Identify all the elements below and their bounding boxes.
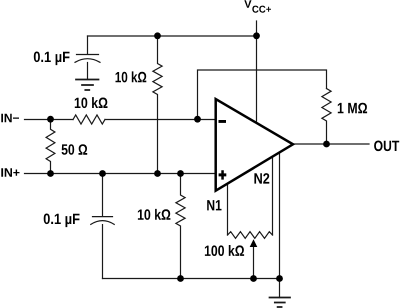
potentiometer R6 100k [228, 232, 273, 239]
capacitor C2 bottom lead [102, 225, 104, 279]
capacitor C2 top lead [102, 174, 104, 217]
label pin N1 [207, 200, 221, 210]
junction IN+ / R3 [47, 170, 54, 177]
label R4 value 1 MOhm [338, 103, 367, 114]
label pin N2 [254, 173, 269, 184]
junction IN+ / C2 [99, 170, 106, 177]
junction bottom / R5 [177, 275, 184, 282]
resistor R4 1M feedback [322, 89, 331, 145]
junction IN+ / R5 [177, 170, 184, 177]
ground G1 [76, 80, 99, 91]
junction bottom / wiper [250, 275, 257, 282]
wire Vcc lead into op-amp [256, 21, 258, 121]
wire bottom rail [103, 278, 280, 280]
op-amp minus sign [219, 120, 227, 123]
wire N2 lead [272, 158, 274, 236]
capacitor C1 0.1uF plates [75, 55, 100, 63]
label OUT [374, 141, 399, 152]
resistor R3 50 ohm [46, 120, 55, 174]
label IN+ [1, 168, 19, 177]
label R2 value 10 kOhm [75, 97, 108, 108]
junction IN- / R3 [47, 116, 54, 123]
op-amp plus sign [219, 170, 227, 179]
capacitor C1 top lead [87, 36, 89, 54]
junction top wire / R1 [154, 32, 161, 39]
resistor R2 10k horizontal [73, 115, 105, 124]
label Vcc+ CC+ subscript [252, 6, 271, 13]
wire wiper stem [253, 246, 255, 279]
ground G2 [270, 298, 291, 308]
label R6 value 100 kOhm [205, 245, 244, 256]
wire IN- line [25, 119, 74, 121]
wire N1 lead [227, 183, 229, 236]
label Vcc+ V [244, 0, 251, 8]
label R1 value 10 kOhm [116, 71, 147, 82]
label C1 value 0.1 uF [34, 52, 70, 66]
label C2 value 0.1 uF [44, 214, 80, 228]
wire feedback loop [198, 70, 327, 120]
capacitor C2 0.1uF plates [91, 217, 114, 225]
wiper arrow [250, 239, 258, 247]
resistor R5 10k vertical bottom [176, 174, 185, 279]
wire top rail [88, 35, 257, 37]
wire output [293, 143, 369, 145]
junction top wire / Vcc [253, 32, 260, 39]
op-amp U1 [216, 99, 293, 191]
wire IN- to op-amp [105, 119, 216, 121]
resistor R1 10k vertical top [153, 36, 162, 174]
wire IN+ line [25, 173, 216, 175]
junction bottom / ground lead [276, 275, 283, 282]
capacitor C1 bottom lead [87, 63, 89, 80]
label IN- [1, 114, 19, 123]
wire Vcc- / ground lead [279, 153, 281, 298]
junction output / R4 [323, 141, 330, 148]
label R3 value 50 Ohm [62, 144, 88, 155]
label R5 value 10 kOhm [138, 209, 171, 220]
junction IN- / feedback [194, 116, 201, 123]
junction IN+ / R1 [154, 170, 161, 177]
